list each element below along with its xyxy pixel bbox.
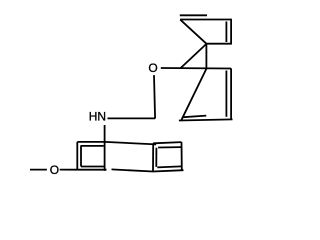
bond C2-C3 top edge upper ring bbox=[180, 19, 231, 21]
svg-text:O: O bbox=[148, 61, 157, 75]
ring B inner bottom double bbox=[157, 166, 181, 167]
ring B top edge bbox=[153, 142, 181, 143]
bond CH3-O2 methyl bbox=[30, 169, 47, 171]
bridge bond top rail bbox=[105, 142, 156, 145]
bridge bond bottom rail bbox=[112, 169, 154, 171]
bond C3-C4 right edge upper ring bbox=[230, 19, 232, 44]
ring A top edge bbox=[77, 141, 105, 143]
bond C10-C11 right edge lower ring bbox=[230, 68, 232, 119]
bond O2-ring A bbox=[60, 169, 78, 171]
bond C2-C1 diagonal upper-left bbox=[180, 20, 206, 44]
ring A inner left double bbox=[80, 145, 82, 166]
bridge elbow nick bbox=[153, 143, 156, 144]
ring A left edge bbox=[76, 142, 78, 170]
bond C10=C11 inner line (lower ring right double) bbox=[225, 71, 227, 117]
bond O1-C9 and C9-C10 long horizontal bbox=[161, 67, 231, 70]
ring B inner top double bbox=[158, 146, 181, 148]
svg-text:HN: HN bbox=[89, 110, 106, 124]
bond C3=C4 inner line (upper ring right double) bbox=[225, 22, 227, 43]
bond C9-C12 diagonal lower-left bbox=[182, 69, 207, 120]
bond N-C13 chain horizontal bbox=[108, 117, 156, 119]
bond N-C14 vertical to ring A bbox=[104, 125, 106, 171]
bond C2=C3 inner line (upper ring top double) bbox=[180, 14, 207, 16]
ring A inner bottom double bbox=[81, 166, 104, 168]
bond C9-C1 hypotenuse diagonal bbox=[180, 44, 206, 69]
bond C1-C9 bridge vertical bbox=[205, 44, 207, 69]
bond C12=C11 inner line (lower ring bottom double) bbox=[183, 116, 206, 118]
ring B right edge bbox=[181, 142, 183, 170]
svg-text:O: O bbox=[50, 163, 59, 177]
ring A inner top double bbox=[81, 145, 104, 147]
ring B bottom edge bbox=[153, 170, 184, 171]
bond C1-C4 bottom edge upper ring bbox=[206, 43, 232, 45]
ring B inner left double bbox=[155, 148, 157, 167]
bond C13-O1 chain vertical bbox=[154, 75, 155, 118]
ring B left edge bbox=[152, 143, 154, 171]
bond C12-C11 bottom edge lower ring bbox=[179, 119, 233, 120]
ring A bottom edge bbox=[77, 169, 106, 171]
